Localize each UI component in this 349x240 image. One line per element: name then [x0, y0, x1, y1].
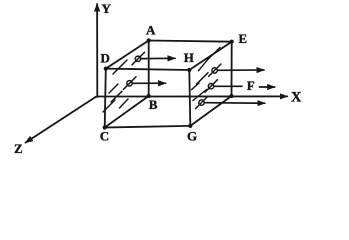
node B [147, 94, 151, 98]
hatching right face HERG [192, 48, 222, 109]
node G [188, 124, 192, 128]
layer circles [127, 56, 218, 105]
edge A-E [149, 41, 232, 42]
edge D-C [105, 69, 106, 128]
svg-text:H: H [184, 50, 194, 65]
edge D-H [106, 69, 190, 70]
svg-text:C: C [100, 129, 109, 144]
node A [147, 38, 151, 42]
edge H-E [189, 42, 231, 70]
node D [104, 67, 108, 71]
svg-text:F: F [247, 78, 255, 93]
svg-text:Y: Y [102, 1, 112, 16]
svg-text:B: B [149, 97, 158, 112]
edge A-B [148, 41, 150, 97]
arrow R3 [205, 102, 265, 105]
Y axis [96, 4, 98, 97]
edge G-R [190, 96, 231, 126]
svg-text:X: X [291, 90, 302, 106]
node C [103, 125, 107, 129]
edge C-G [105, 126, 191, 128]
line R2 (F row, no head) [214, 85, 242, 87]
svg-text:A: A [146, 22, 156, 37]
svg-text:G: G [187, 129, 197, 144]
node E [230, 40, 234, 44]
layer arrows [133, 58, 275, 103]
svg-text:D: D [101, 51, 110, 66]
edge D-A [106, 41, 149, 69]
edge C-B [105, 96, 149, 128]
arrow L2 [133, 82, 166, 84]
X axis [97, 95, 287, 97]
node H [187, 68, 191, 72]
arrow R1 [218, 69, 265, 71]
edge E-R [231, 42, 233, 96]
svg-text:E: E [239, 31, 248, 46]
svg-text:Z: Z [14, 141, 23, 156]
Z axis [26, 96, 98, 143]
arrow L1 [141, 57, 175, 59]
hatching left face DABC [103, 52, 145, 112]
arrow F [260, 86, 275, 88]
vertex dots [103, 38, 234, 129]
node R (unlabeled) [229, 94, 233, 98]
edge H-G [189, 70, 190, 126]
